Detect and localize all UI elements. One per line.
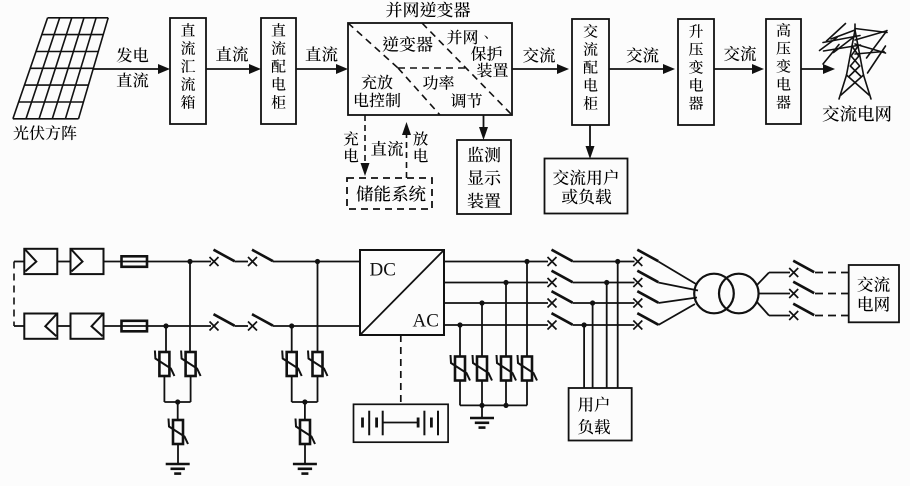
DC switch S1a — [210, 250, 235, 266]
DC/AC inverter U1 — [360, 250, 444, 335]
arrow to AC users — [586, 125, 595, 159]
PV module boxes string 2 — [24, 314, 103, 339]
arrow 直流 to inverter — [296, 46, 348, 74]
wires into transformer — [658, 262, 698, 326]
grid breaker Q3-1 — [789, 261, 849, 277]
AC breaker Q1-4 — [548, 313, 635, 329]
battery bank — [354, 404, 449, 442]
arrow to monitor display — [479, 115, 488, 140]
surge arrester group 1 — [155, 262, 201, 474]
PV array 光伏方阵 — [13, 18, 108, 119]
AC breaker Q1-2 — [548, 271, 635, 287]
wire string 1 — [57, 261, 70, 263]
surge arrester group 2 — [282, 262, 327, 474]
grid block 交流电网 — [849, 265, 899, 322]
junction dots before inverter — [289, 259, 320, 329]
inverter block 并网逆变器 — [348, 2, 512, 115]
dashed charge arrow 充电 — [344, 115, 370, 176]
label 光伏方阵 — [13, 125, 76, 140]
AC breaker Q2-1 — [633, 250, 658, 266]
block 监测显示装置 — [457, 140, 511, 214]
AC breaker Q2-2 — [633, 271, 658, 287]
transformer output wires — [757, 273, 791, 316]
fuse F1 — [104, 256, 212, 267]
surge arrester group 3 — [451, 259, 538, 428]
AC line 2 — [444, 282, 548, 284]
block 交流配电柜 — [572, 19, 609, 125]
arrow 交流 to step-up transformer — [609, 47, 675, 74]
junction dots on DC rows — [163, 259, 192, 329]
arrow to AC grid tower — [801, 64, 835, 74]
grid breaker Q3-3 — [789, 304, 849, 320]
AC breaker Q2-3 — [633, 291, 658, 307]
arrow 直流 combiner to DC cabinet — [206, 46, 261, 74]
DC switch S1b — [235, 250, 361, 266]
AC line 4 — [444, 324, 548, 326]
transmission tower icon — [820, 24, 888, 100]
AC breaker Q2-4 — [633, 313, 658, 329]
arrow 交流 inverter to AC cabinet — [512, 47, 569, 74]
PV module boxes string 1 — [24, 249, 103, 274]
PV string bus dashed — [14, 262, 24, 327]
AC line 1 — [444, 261, 548, 263]
storage block 储能系统 — [347, 178, 432, 209]
label 交流电网 — [823, 105, 891, 121]
svg-text:AC: AC — [413, 310, 439, 331]
transformer T1 — [694, 274, 758, 314]
fuse F2 — [104, 321, 212, 332]
AC breaker Q1-3 — [548, 291, 635, 307]
label 直流 — [371, 141, 403, 156]
DC switch S2b — [235, 314, 361, 330]
block 直流配电柜 — [261, 18, 296, 124]
battery storage dashed link — [400, 335, 402, 404]
block 直流汇流箱 — [170, 18, 206, 124]
AC line 3 — [444, 302, 548, 304]
grid breaker Q3-2 — [789, 282, 849, 298]
AC breaker Q1-1 — [548, 250, 635, 266]
dashed discharge arrow 放电 — [402, 122, 428, 178]
block 高压变电器 — [766, 19, 801, 124]
DC switch S2a — [210, 314, 235, 330]
block 交流用户或负载 — [545, 159, 628, 214]
svg-text:DC: DC — [370, 259, 396, 280]
load tap junctions — [582, 259, 621, 388]
wire PV array to DC combiner, labels 发电 直流 — [93, 47, 170, 87]
load block 用户负载 — [569, 388, 632, 441]
block 升压变电器 — [678, 19, 714, 125]
wire string 2 — [57, 325, 70, 327]
arrow 交流 to HV transformer — [714, 46, 764, 74]
